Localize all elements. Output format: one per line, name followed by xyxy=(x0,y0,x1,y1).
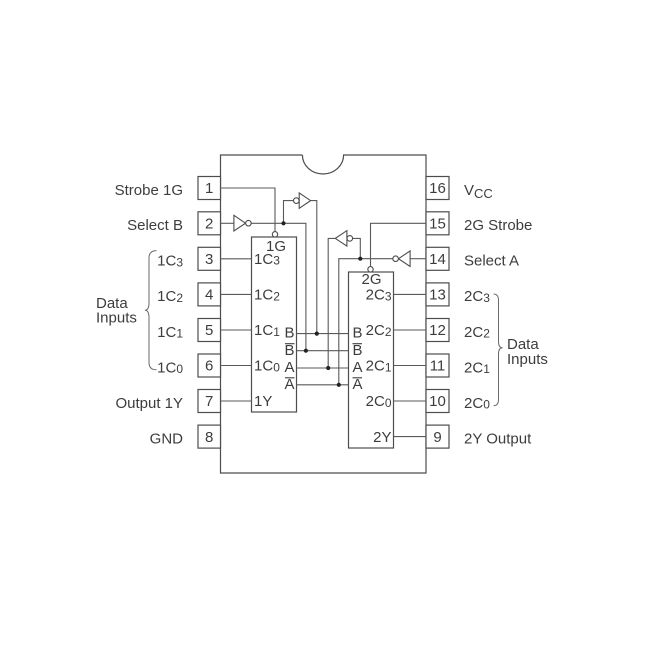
svg-text:1C1: 1C1 xyxy=(254,322,280,339)
svg-text:2C1: 2C1 xyxy=(464,359,490,376)
svg-text:2G: 2G xyxy=(361,271,381,288)
svg-text:2C3: 2C3 xyxy=(464,288,490,305)
svg-text:B: B xyxy=(353,325,363,342)
svg-text:Output 1Y: Output 1Y xyxy=(115,395,183,412)
svg-text:1C3: 1C3 xyxy=(254,251,280,268)
svg-text:1C1: 1C1 xyxy=(157,324,183,341)
svg-text:2C3: 2C3 xyxy=(366,287,392,304)
svg-text:2C2: 2C2 xyxy=(366,322,392,339)
svg-text:1Y: 1Y xyxy=(254,393,272,410)
svg-text:Inputs: Inputs xyxy=(507,351,548,368)
svg-text:VCC: VCC xyxy=(464,182,493,201)
svg-text:1C0: 1C0 xyxy=(157,359,183,376)
svg-text:Select A: Select A xyxy=(464,253,519,270)
svg-text:A: A xyxy=(284,359,294,376)
svg-text:12: 12 xyxy=(429,322,446,339)
svg-text:4: 4 xyxy=(205,287,213,304)
svg-text:1C3: 1C3 xyxy=(157,253,183,270)
svg-text:B: B xyxy=(284,325,294,342)
svg-text:3: 3 xyxy=(205,251,213,268)
svg-text:6: 6 xyxy=(205,358,213,375)
svg-text:2C2: 2C2 xyxy=(464,324,490,341)
svg-text:15: 15 xyxy=(429,216,446,233)
svg-text:2C0: 2C0 xyxy=(366,393,392,410)
svg-text:1C2: 1C2 xyxy=(157,288,183,305)
svg-text:GND: GND xyxy=(150,430,184,447)
svg-text:A: A xyxy=(353,359,363,376)
svg-text:14: 14 xyxy=(429,251,446,268)
svg-text:2C0: 2C0 xyxy=(464,395,490,412)
svg-text:10: 10 xyxy=(429,393,446,410)
svg-text:2: 2 xyxy=(205,216,213,233)
svg-text:7: 7 xyxy=(205,393,213,410)
svg-text:2Y: 2Y xyxy=(373,429,391,446)
svg-text:2Y Output: 2Y Output xyxy=(464,430,532,447)
svg-text:2G Strobe: 2G Strobe xyxy=(464,217,532,234)
svg-text:11: 11 xyxy=(430,358,446,375)
svg-text:Strobe 1G: Strobe 1G xyxy=(115,182,183,199)
svg-text:1: 1 xyxy=(205,180,213,197)
svg-text:8: 8 xyxy=(205,429,213,446)
svg-text:A: A xyxy=(353,376,363,393)
svg-text:1C2: 1C2 xyxy=(254,287,280,304)
svg-text:9: 9 xyxy=(433,429,441,446)
svg-text:Inputs: Inputs xyxy=(96,310,137,327)
svg-text:13: 13 xyxy=(429,287,446,304)
svg-text:A: A xyxy=(284,376,294,393)
svg-text:B: B xyxy=(284,342,294,359)
svg-text:1C0: 1C0 xyxy=(254,358,280,375)
svg-text:2C1: 2C1 xyxy=(366,358,392,375)
svg-text:B: B xyxy=(353,342,363,359)
svg-text:5: 5 xyxy=(205,322,213,339)
svg-text:Select B: Select B xyxy=(127,217,183,234)
svg-text:16: 16 xyxy=(429,180,446,197)
